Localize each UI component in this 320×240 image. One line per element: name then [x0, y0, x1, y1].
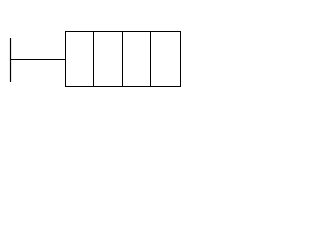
terminal pin (vertical bar) [10, 38, 12, 82]
section divider 1 [93, 32, 95, 87]
section divider 3 [150, 32, 152, 87]
section divider 2 [122, 32, 124, 87]
multi-section component body (4-cell box) [66, 32, 181, 87]
wire [10, 59, 66, 61]
